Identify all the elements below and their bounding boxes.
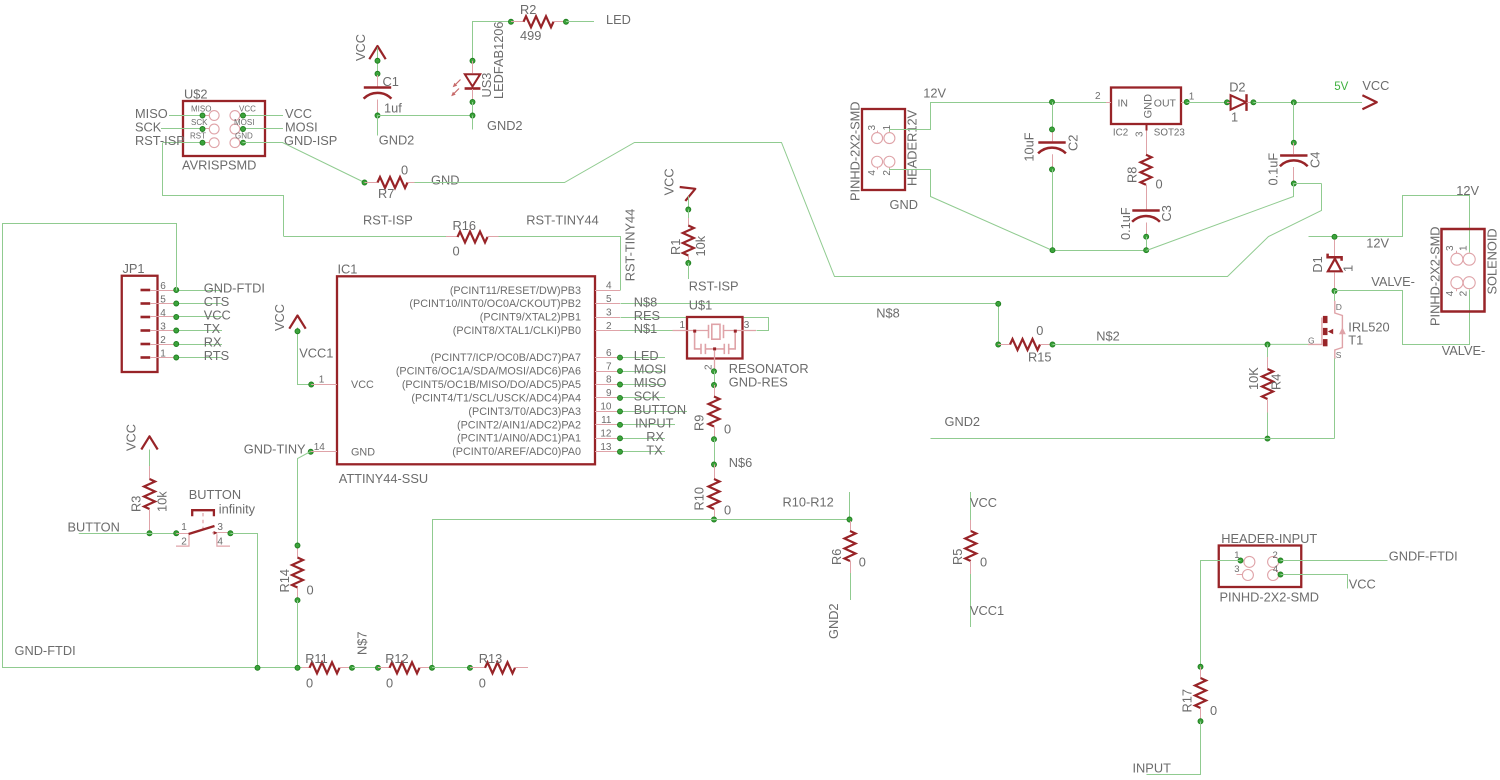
resonator cap right <box>715 331 736 354</box>
US2 pin pads left column <box>209 111 219 121</box>
svg-text:1uf: 1uf <box>384 101 402 116</box>
svg-text:GND-FTDI: GND-FTDI <box>15 643 76 658</box>
wire net GNDF-FTDI <box>1281 560 1388 562</box>
svg-text:(PCINT6/OC1A/SDA/MOSI/ADC6)PA6: (PCINT6/OC1A/SDA/MOSI/ADC6)PA6 <box>396 365 581 377</box>
resistor R10 <box>714 465 716 480</box>
wire GND2 stub under C1 <box>377 116 379 136</box>
svg-text:0: 0 <box>1156 177 1163 192</box>
svg-text:R9: R9 <box>692 415 707 431</box>
svg-text:11: 11 <box>601 415 612 426</box>
wire GND-RES <box>714 371 716 385</box>
svg-text:GNDF-FTDI: GNDF-FTDI <box>1389 548 1458 563</box>
JP1 pin pads <box>141 289 151 292</box>
junction N$8 at R15 <box>996 342 1001 347</box>
svg-text:T1: T1 <box>1348 332 1363 347</box>
junction C4 pin top <box>1291 140 1296 145</box>
wire net RX from pin 12 <box>620 438 665 440</box>
svg-text:4: 4 <box>867 170 878 176</box>
IC2 output stub <box>1181 102 1187 104</box>
junction IC pin 14 <box>308 449 313 454</box>
svg-text:LEDFAB1206: LEDFAB1206 <box>491 21 506 99</box>
svg-text:GND: GND <box>431 173 459 188</box>
US2 pin stubs <box>203 115 210 117</box>
connector HEADER12V box <box>862 109 905 190</box>
svg-text:GND2: GND2 <box>487 118 523 133</box>
svg-text:R13: R13 <box>479 651 502 666</box>
junction D1 bottom <box>1332 289 1337 294</box>
svg-text:0: 0 <box>307 583 314 598</box>
wire net VALVE- <box>1335 290 1470 345</box>
svg-text:VCC: VCC <box>351 379 374 391</box>
junction pin 6 <box>618 355 623 360</box>
svg-text:0: 0 <box>1036 323 1043 338</box>
junction VCC R1 <box>686 207 691 212</box>
wire GND2 stub under LED <box>472 116 474 130</box>
switch pin 3 <box>212 532 217 534</box>
svg-text:0: 0 <box>980 555 987 570</box>
junction D2 right <box>1251 100 1256 105</box>
svg-text:10k: 10k <box>693 235 708 256</box>
HEADER-INPUT pads <box>1244 556 1255 567</box>
svg-text:VCC: VCC <box>124 424 139 451</box>
resonator crystal symbol <box>708 325 710 338</box>
US2 pin pads right column <box>230 111 240 121</box>
wire GND-ISP <box>243 142 283 144</box>
wire SCK <box>161 128 203 130</box>
svg-text:0: 0 <box>724 503 731 518</box>
wire C3 to GND2 <box>1146 237 1148 251</box>
svg-text:GND-ISP: GND-ISP <box>284 133 337 148</box>
svg-text:GND: GND <box>1143 94 1155 119</box>
JP1 pin wires and labels <box>176 290 222 292</box>
wire net VCC from pin4 <box>1281 575 1348 589</box>
svg-text:0.1uF: 0.1uF <box>1266 153 1281 186</box>
junction above R9 <box>712 383 717 388</box>
LED US3 diode symbol <box>472 61 474 73</box>
svg-text:5V: 5V <box>1334 81 1348 93</box>
junction LED anode wire <box>470 58 475 63</box>
wire net N$1 from pin 2 <box>620 330 673 332</box>
wire source to GND2 <box>1334 359 1336 439</box>
svg-text:1: 1 <box>181 522 187 533</box>
svg-text:GND2: GND2 <box>945 414 981 429</box>
junction R9 bottom <box>712 437 717 442</box>
wire net R10-R12 bus <box>433 520 850 668</box>
wire net GND from US2 to R7 <box>243 143 365 183</box>
svg-text:VCC: VCC <box>970 495 997 510</box>
svg-text:1: 1 <box>1189 92 1195 103</box>
svg-text:IN: IN <box>1118 98 1129 110</box>
svg-text:12V: 12V <box>1366 235 1389 250</box>
IC pin 1 stub <box>311 384 337 386</box>
resistor R15 <box>998 344 1010 346</box>
svg-text:4: 4 <box>160 308 166 319</box>
power symbol VCC at R1 rotated <box>680 182 698 201</box>
svg-text:8: 8 <box>606 375 612 386</box>
resistor R8 <box>1141 155 1152 185</box>
capacitor C1 <box>377 75 379 87</box>
svg-text:(PCINT9/XTAL2)PB1: (PCINT9/XTAL2)PB1 <box>480 312 581 324</box>
wire R1 to RST-ISP stub <box>688 263 690 279</box>
IC2 pin 3 lead <box>1146 124 1148 131</box>
svg-text:12V: 12V <box>1456 183 1479 198</box>
wire net INPUT from pin1 <box>1201 561 1241 667</box>
wire net MOSI from pin 7 <box>620 371 665 373</box>
svg-text:R8: R8 <box>1125 167 1140 183</box>
svg-text:0: 0 <box>386 675 393 690</box>
svg-text:(PCINT11/RESET/DW)PB3: (PCINT11/RESET/DW)PB3 <box>450 285 581 297</box>
wire R14 to bus <box>297 600 299 668</box>
svg-text:R12: R12 <box>385 651 408 666</box>
wire VCC from US2 <box>243 115 283 117</box>
junction VCC pin <box>375 58 380 63</box>
connector HEADER-INPUT box <box>1219 546 1302 588</box>
resistor R16 <box>446 236 458 238</box>
junction GND pin <box>241 140 246 145</box>
svg-text:2: 2 <box>882 170 893 176</box>
connector SOLENOID box <box>1442 229 1485 312</box>
svg-text:SOLENOID: SOLENOID <box>1485 228 1500 294</box>
svg-text:0: 0 <box>401 163 408 178</box>
svg-text:2: 2 <box>1273 550 1278 561</box>
svg-text:0: 0 <box>859 555 866 570</box>
svg-text:(PCINT10/INT0/OC0A/CKOUT)PB2: (PCINT10/INT0/OC0A/CKOUT)PB2 <box>409 298 581 310</box>
resistor R7 <box>365 182 378 184</box>
junction input pin4 <box>1278 572 1283 577</box>
svg-text:6: 6 <box>606 348 612 359</box>
svg-text:0: 0 <box>724 422 731 437</box>
svg-text:GND2: GND2 <box>826 603 841 639</box>
power symbol VCC at R3 <box>141 436 157 449</box>
junction R17 top <box>1198 664 1203 669</box>
svg-text:D1: D1 <box>1310 256 1325 272</box>
junction R2 right <box>564 19 569 24</box>
svg-text:HEADER-INPUT: HEADER-INPUT <box>1221 531 1317 546</box>
svg-text:D: D <box>1336 302 1342 312</box>
wire C2 top <box>1052 102 1054 129</box>
junction R14 top <box>295 543 300 548</box>
wire net BUTTON from pin 10 <box>620 411 687 413</box>
svg-text:GND-TINY: GND-TINY <box>244 441 306 456</box>
wire RST-ISP <box>163 142 203 144</box>
svg-text:4: 4 <box>217 536 223 547</box>
switch pin 1 <box>174 531 179 536</box>
svg-text:N$1: N$1 <box>634 321 657 336</box>
svg-text:0: 0 <box>1210 703 1217 718</box>
junction R12 left <box>376 665 381 670</box>
svg-text:VCC1: VCC1 <box>970 603 1004 618</box>
HEADER12V pads <box>872 133 883 144</box>
svg-text:VCC: VCC <box>239 104 256 113</box>
wire R10-R12 stub above R6 <box>849 492 851 520</box>
svg-text:1: 1 <box>160 348 166 359</box>
capacitor C4 <box>1293 143 1295 154</box>
resistor R3 <box>149 450 151 467</box>
svg-text:C4: C4 <box>1308 152 1323 168</box>
wire net GND long route to power section <box>415 143 1322 277</box>
svg-text:R7: R7 <box>378 186 394 201</box>
junction C3 bottom <box>1144 234 1149 239</box>
svg-text:S: S <box>1336 350 1342 360</box>
junction D2 left <box>1225 100 1230 105</box>
SOLENOID pin ticks <box>1456 251 1458 253</box>
junction R6 top <box>847 517 852 522</box>
svg-text:SOT23: SOT23 <box>1154 128 1186 139</box>
svg-text:U$2: U$2 <box>184 87 207 102</box>
resonator pin 1 line <box>673 330 709 332</box>
svg-text:VCC: VCC <box>662 168 677 195</box>
svg-text:MISO: MISO <box>191 104 211 113</box>
svg-text:SCK: SCK <box>191 118 208 127</box>
svg-text:G: G <box>1308 336 1315 346</box>
svg-text:12V: 12V <box>923 86 946 101</box>
svg-text:1: 1 <box>1458 245 1469 251</box>
HEADER-INPUT pin3 tick <box>1237 574 1244 576</box>
svg-text:7: 7 <box>606 361 612 372</box>
svg-text:JP1: JP1 <box>123 261 145 276</box>
svg-text:3: 3 <box>217 522 223 533</box>
junction R14 bus <box>295 665 300 670</box>
resistor R13 <box>470 667 485 669</box>
svg-text:R15: R15 <box>1028 349 1051 364</box>
svg-text:(PCINT7/ICP/OC0B/ADC7)PA7: (PCINT7/ICP/OC0B/ADC7)PA7 <box>431 352 581 364</box>
svg-text:AVRISPSMD: AVRISPSMD <box>182 158 256 173</box>
svg-text:VCC: VCC <box>353 34 368 61</box>
resistor R9 <box>714 385 716 397</box>
svg-text:2: 2 <box>160 335 166 346</box>
resistor R2 <box>511 21 524 23</box>
junction pin 11 <box>618 422 623 427</box>
wire VCC1 stub under R5 <box>970 574 972 627</box>
svg-text:RST-ISP: RST-ISP <box>363 213 413 228</box>
wire N$7 <box>352 667 378 669</box>
svg-text:(PCINT4/T1/SCL/USCK/ADC4)PA4: (PCINT4/T1/SCL/USCK/ADC4)PA4 <box>411 392 581 404</box>
svg-text:RST-ISP: RST-ISP <box>135 133 185 148</box>
junction pin 8 <box>618 382 623 387</box>
svg-text:VCC1: VCC1 <box>299 346 333 361</box>
wire GND2 from C4 to right corner <box>1294 183 1322 185</box>
junction R3 bottom <box>147 531 152 536</box>
power symbol VCC above C1 <box>369 46 385 59</box>
svg-text:LED: LED <box>606 12 631 27</box>
svg-text:3: 3 <box>606 307 612 318</box>
wire MISO <box>169 115 203 117</box>
junction pin 13 <box>618 449 623 454</box>
wire MOSI <box>243 128 283 130</box>
wire net N$2 <box>1053 343 1309 345</box>
wire GND2 from C4 diagonal <box>1147 184 1294 251</box>
svg-text:(PCINT5/OC1B/MISO/DO/ADC5)PA5: (PCINT5/OC1B/MISO/DO/ADC5)PA5 <box>402 379 581 391</box>
resistor R12 <box>378 667 390 669</box>
svg-text:R16: R16 <box>453 218 476 233</box>
IC U1 IC1 ATTINY44 box <box>337 276 595 464</box>
svg-text:R5: R5 <box>950 549 965 565</box>
wire net MISO from pin 8 <box>620 384 665 386</box>
svg-text:5: 5 <box>160 294 166 305</box>
junction R14 bottom <box>295 598 300 603</box>
junction RST pin <box>200 140 205 145</box>
wire C2 bottom <box>1052 169 1054 250</box>
LED emission arrows <box>454 80 461 87</box>
svg-text:RST-ISP: RST-ISP <box>689 279 739 294</box>
svg-text:VALVE-: VALVE- <box>1371 274 1415 289</box>
svg-text:3: 3 <box>1445 245 1456 251</box>
JP1 pin stubs <box>150 290 176 292</box>
wire net GND2 from header pin2 <box>890 169 1147 251</box>
junction MOSI pin <box>241 127 246 132</box>
svg-text:VCC: VCC <box>1349 576 1376 591</box>
svg-text:10: 10 <box>600 402 612 413</box>
wire net 12V right segment <box>1309 196 1470 253</box>
svg-text:1: 1 <box>1231 109 1238 124</box>
svg-text:GND: GND <box>890 197 918 212</box>
wire VCC to R1 <box>688 196 690 209</box>
wire RST-ISP to R16 <box>284 236 446 238</box>
svg-text:3: 3 <box>160 321 166 332</box>
wire net 12V from header pin1 <box>890 103 1107 132</box>
svg-text:4: 4 <box>1273 564 1278 575</box>
wire net INPUT from pin 11 <box>620 424 675 426</box>
svg-text:3: 3 <box>744 320 750 331</box>
wire IC2 out to D2 <box>1187 102 1227 104</box>
junction IC2 out <box>1184 100 1189 105</box>
junction resonator pin2 <box>712 369 717 374</box>
wire C4 top <box>1293 102 1295 142</box>
svg-text:PINHD-2X2-SMD: PINHD-2X2-SMD <box>1220 589 1320 604</box>
svg-text:N$2: N$2 <box>1096 328 1119 343</box>
svg-text:VCC: VCC <box>1362 78 1389 93</box>
svg-text:4: 4 <box>606 281 612 292</box>
junction VCC pin <box>241 113 246 118</box>
junction C2 pin bottom <box>1050 167 1055 172</box>
resistor R1 <box>688 210 690 219</box>
junction R4 bottom <box>1265 436 1270 441</box>
wire BUTTON to bus <box>231 534 258 668</box>
wire N$6 <box>714 439 716 464</box>
resistor R14 <box>297 546 299 558</box>
diode D2 <box>1227 102 1231 104</box>
junction LED cathode <box>470 100 475 105</box>
resistor R11 <box>302 667 310 669</box>
svg-text:R2: R2 <box>520 2 536 17</box>
junction C4 bottom <box>1291 181 1296 186</box>
svg-text:R3: R3 <box>129 496 144 512</box>
svg-text:GND: GND <box>235 131 253 140</box>
junction GND2 at C3 <box>1144 248 1149 253</box>
junction input pin1 <box>1238 558 1243 563</box>
svg-text:C1: C1 <box>383 74 399 89</box>
junction R10 bottom <box>712 517 717 522</box>
capacitor C3 <box>1132 209 1159 212</box>
svg-text:10uF: 10uF <box>1022 132 1037 161</box>
wire net N$8 from pin 5 <box>621 304 999 345</box>
junction pin 12 <box>618 436 623 441</box>
junction D1 top <box>1332 234 1337 239</box>
svg-text:1: 1 <box>680 320 686 331</box>
svg-text:(PCINT2/AIN1/ADC2)PA2: (PCINT2/AIN1/ADC2)PA2 <box>457 419 581 431</box>
svg-text:(PCINT8/XTAL1/CLKI)PB0: (PCINT8/XTAL1/CLKI)PB0 <box>453 325 581 337</box>
svg-text:BUTTON: BUTTON <box>189 487 241 502</box>
svg-text:9: 9 <box>606 388 612 399</box>
svg-text:U$1: U$1 <box>689 298 712 313</box>
junction C2 pin top <box>1050 127 1055 132</box>
IC2 input stub <box>1106 102 1111 104</box>
svg-text:RST-TINY44: RST-TINY44 <box>623 209 638 282</box>
junction C1 bottom <box>375 113 380 118</box>
svg-text:1: 1 <box>319 375 325 386</box>
resonator pin 2 line <box>714 350 716 371</box>
wire net TX from pin 13 <box>620 451 665 453</box>
svg-text:OUT: OUT <box>1154 98 1177 110</box>
junction R13 left <box>468 665 473 670</box>
resonator U$1 box <box>687 317 743 359</box>
wire LED cathode to GND2 <box>472 102 474 116</box>
wire GND2 stub under R6 <box>850 573 852 600</box>
wire RST-TINY44 to IC pin 4 <box>499 237 621 291</box>
svg-text:(PCINT1/AIN0/ADC1)PA1: (PCINT1/AIN0/ADC1)PA1 <box>457 433 581 445</box>
connector JP1 box <box>122 276 158 372</box>
junction R17 bottom <box>1198 719 1203 724</box>
svg-text:ATTINY44-SSU: ATTINY44-SSU <box>339 471 428 486</box>
junction N$8 corner <box>996 301 1001 306</box>
svg-text:R4: R4 <box>1269 374 1284 390</box>
connector US2 AVRISPSMD box <box>183 101 265 156</box>
junction R1 bottom <box>686 261 691 266</box>
svg-text:3: 3 <box>1234 564 1239 575</box>
svg-text:12: 12 <box>600 429 612 440</box>
junction C1 top <box>375 71 380 76</box>
svg-text:2: 2 <box>181 536 187 547</box>
svg-text:MOSI: MOSI <box>234 118 254 127</box>
junction GND2 LED <box>470 113 475 118</box>
svg-text:C2: C2 <box>1066 135 1081 151</box>
svg-text:C3: C3 <box>1159 205 1174 221</box>
svg-text:PINHD-2X2-SMD: PINHD-2X2-SMD <box>1428 226 1443 326</box>
wire LED net <box>566 21 594 23</box>
IC1 right pin stubs <box>595 290 620 292</box>
svg-text:6: 6 <box>160 281 166 292</box>
power symbol VCC at VCC1 <box>289 316 305 329</box>
junction R4 top <box>1265 342 1270 347</box>
svg-text:R14: R14 <box>277 569 292 592</box>
junction VCC1 chevron <box>295 329 300 334</box>
svg-text:N$6: N$6 <box>729 455 752 470</box>
wire VCC1 <box>298 328 312 385</box>
svg-text:0: 0 <box>306 675 313 690</box>
svg-text:IC1: IC1 <box>338 262 358 277</box>
svg-text:(PCINT0/AREF/ADC0)PA0: (PCINT0/AREF/ADC0)PA0 <box>452 446 581 458</box>
junction IC pin 1 <box>309 382 314 387</box>
switch pin 2 bracket <box>176 534 189 546</box>
capacitor C2 <box>1052 129 1054 141</box>
junction C4 top wire <box>1291 100 1296 105</box>
svg-text:infinity: infinity <box>219 501 256 516</box>
svg-text:0.1uF: 0.1uF <box>1118 207 1133 240</box>
svg-text:2: 2 <box>606 321 612 332</box>
svg-text:14: 14 <box>314 442 326 453</box>
svg-text:TX: TX <box>646 442 663 457</box>
svg-text:(PCINT3/T0/ADC3)PA3: (PCINT3/T0/ADC3)PA3 <box>468 406 581 418</box>
svg-text:R10: R10 <box>692 487 707 510</box>
diode D1 zener <box>1334 240 1336 257</box>
svg-text:N$7: N$7 <box>355 632 370 655</box>
wire net LED vertical <box>473 22 511 61</box>
HEADER12V pin ticks <box>877 131 879 133</box>
svg-text:13: 13 <box>600 442 612 453</box>
junction MISO pin <box>200 113 205 118</box>
svg-text:HEADER12V: HEADER12V <box>905 109 920 186</box>
wire INPUT bottom <box>1147 722 1201 775</box>
